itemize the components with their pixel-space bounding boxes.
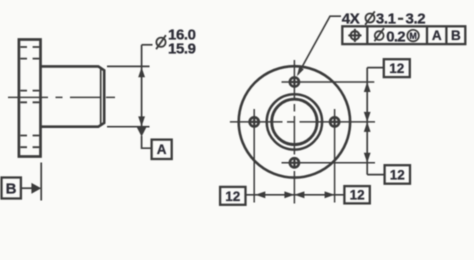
svg-text:3.1: 3.1 — [376, 11, 396, 28]
leader arrowhead — [297, 67, 304, 77]
arrowhead down to centerline — [364, 112, 371, 122]
svg-text:4X: 4X — [342, 11, 360, 28]
bolt hole top — [290, 77, 299, 86]
callout dash — [398, 18, 403, 20]
dimension leader elbow to text — [142, 44, 153, 46]
svg-text:M: M — [409, 31, 417, 41]
FCF cell dividers — [367, 26, 446, 44]
bolt hole top center mark — [282, 81, 375, 83]
hidden line: bottom bolt hole lower edge — [20, 146, 39, 148]
datum B extension line (flange face) — [40, 163, 42, 201]
extension line: shaft bottom edge — [107, 126, 150, 128]
bolt hole bottom center mark — [282, 162, 376, 164]
feature control frame outline — [342, 26, 465, 44]
svg-text:A: A — [157, 142, 167, 157]
svg-text:B: B — [451, 28, 461, 43]
position symbol — [348, 29, 361, 42]
svg-text:12: 12 — [225, 189, 240, 204]
datum A leader — [142, 136, 152, 148]
chamfer circle (front view) — [272, 99, 317, 144]
leader to top right 12 box — [367, 67, 384, 69]
datum B frame — [2, 178, 21, 199]
bolt hole right — [330, 117, 339, 126]
svg-text:12: 12 — [350, 188, 365, 203]
leader to bottom right 12 box — [367, 174, 384, 176]
svg-text:15.9: 15.9 — [168, 41, 196, 58]
hidden line: top bolt hole upper edge — [20, 46, 39, 48]
top right basic dimension 12 box — [384, 59, 410, 77]
arrowhead up from centerline — [364, 122, 371, 132]
datum B triangle — [31, 183, 41, 194]
bottom left basic dimension 12 box — [220, 187, 245, 205]
svg-text:3.2: 3.2 — [406, 11, 426, 28]
shaft outline (side view) — [41, 66, 105, 126]
bolt hole bottom — [290, 158, 299, 167]
hidden line: bottom bolt hole upper edge — [20, 135, 39, 137]
datum A triangle — [137, 127, 147, 136]
dimension line for diameter 16 — [141, 45, 143, 126]
bolt hole right center mark / extension line — [334, 109, 336, 203]
bottom right basic dimension 12 box (horizontal dim) — [344, 186, 369, 203]
svg-text:B: B — [6, 181, 17, 198]
bolt hole left center mark / extension line — [253, 109, 255, 203]
svg-text:A: A — [432, 28, 442, 43]
vertical centerline (front view) — [293, 60, 295, 204]
svg-text:12: 12 — [390, 167, 405, 182]
arrowhead up to top hole line — [364, 82, 371, 92]
flange outer circle (front view) — [239, 66, 350, 177]
centerline (side view) — [8, 96, 117, 98]
dimension arrowhead down — [138, 116, 145, 126]
hidden line: side bolt holes lower edge — [20, 101, 39, 103]
arrowhead right to center ext — [284, 191, 294, 198]
dimension arrowhead up — [138, 67, 145, 77]
horizontal centerline (front view) — [230, 121, 375, 123]
diameter symbol of 16.0/15.9 — [156, 35, 166, 49]
diameter symbol in FCF — [374, 28, 384, 41]
arrowhead left from center ext — [294, 191, 304, 198]
hidden line: top bolt hole lower edge — [20, 58, 39, 60]
flange outline (side view) — [19, 40, 41, 157]
leader from hole callout to top hole — [298, 16, 341, 74]
arrowhead right to right hole ext — [325, 191, 335, 198]
arrowhead left to left hole ext — [255, 191, 265, 198]
datum A frame — [152, 140, 172, 159]
svg-text:0.2: 0.2 — [386, 28, 405, 45]
arrowhead down to bottom hole line — [364, 153, 371, 163]
callout diameter symbol — [365, 11, 375, 24]
bottom right basic dimension 12 box — [385, 165, 410, 184]
datum B leader — [21, 187, 32, 189]
bottom dimension line — [246, 194, 345, 196]
shaft circle (front view) — [267, 94, 322, 149]
M circle modifier — [407, 30, 419, 42]
svg-text:12: 12 — [389, 61, 404, 76]
extension line: shaft top edge — [107, 65, 150, 67]
hidden line: side bolt holes upper edge — [20, 90, 39, 92]
bolt hole left — [250, 117, 259, 126]
vertical dimension line (right side) — [366, 68, 368, 175]
shaft chamfer line — [100, 67, 102, 126]
